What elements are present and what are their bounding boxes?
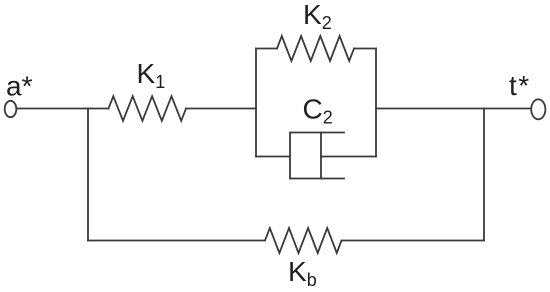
svg-text:t*: t* [509, 70, 531, 101]
svg-text:Kb: Kb [288, 256, 317, 290]
resistor (spring) K2 [277, 36, 354, 61]
svg-text:C2: C2 [303, 93, 333, 127]
wire: parallel block right vertical [375, 49, 377, 157]
wire: junction to right terminal [484, 108, 531, 110]
wire: bottom branch right [342, 240, 485, 242]
terminal t* circle [531, 99, 545, 119]
svg-text:a*: a* [6, 70, 33, 101]
wire: damper piston rod [321, 156, 376, 158]
node right junction [483, 109, 485, 241]
wire: parallel block to right junction [376, 108, 484, 110]
terminal a* circle [5, 101, 17, 117]
wire: K1 to parallel block [186, 108, 256, 110]
node left junction [87, 109, 89, 241]
wire: bottom branch [88, 240, 265, 242]
wire: top branch right stub [354, 48, 376, 50]
capacitor (damper) C2 piston [320, 133, 322, 179]
resistor (spring) K1 [109, 96, 187, 121]
resistor (spring) Kb [265, 228, 342, 253]
svg-text:K2: K2 [303, 0, 332, 33]
svg-text:K1: K1 [137, 58, 166, 92]
wire: left terminal to K1 [17, 108, 109, 110]
capacitor (damper) C2 cylinder [290, 133, 344, 179]
wire: parallel block left vertical [255, 49, 257, 157]
wire: damper branch left stub [256, 156, 290, 158]
wire: top branch left stub [256, 48, 277, 50]
